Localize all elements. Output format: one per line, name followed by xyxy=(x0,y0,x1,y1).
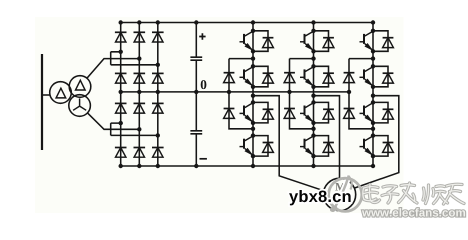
diode DW6 (clamp) xyxy=(344,109,355,119)
wire: rectifier column leg b xyxy=(138,23,140,167)
diode DU4 (freewheel) xyxy=(253,136,273,157)
diode DU5 (clamp) xyxy=(224,73,235,83)
transistor VU2 (IGBT) xyxy=(240,64,256,89)
diode DW5 (clamp) xyxy=(344,73,355,83)
transistor VW1 (IGBT) xyxy=(360,29,376,54)
wire: delta secondary to upper bridge AC input xyxy=(87,59,111,79)
label - xyxy=(200,158,207,160)
transformer T1 primary winding (delta) xyxy=(50,82,72,104)
diode DW3 (freewheel) xyxy=(373,102,393,123)
transistor VV3 (IGBT) xyxy=(300,100,316,125)
transistor VU1 (IGBT) xyxy=(240,29,256,54)
wire: DC link vertical xyxy=(195,23,197,167)
wire: upper bridge AC input comb xyxy=(111,50,160,67)
wire: positive DC bus (+) xyxy=(119,20,376,24)
wire: phase U leg xyxy=(251,23,255,167)
motor M xyxy=(323,178,355,210)
transistor VU3 (IGBT) xyxy=(240,100,256,125)
transformer T1 secondary winding 1 (delta) xyxy=(69,76,91,98)
wire: phase U output xyxy=(253,96,324,191)
diode DV4 (freewheel) xyxy=(314,136,334,157)
diode DU3 (freewheel) xyxy=(253,102,273,123)
wire: neutral bus 0 xyxy=(119,90,352,94)
diode D3 (rectifier) xyxy=(152,32,164,42)
diode DW4 (freewheel) xyxy=(373,136,393,157)
diode DW1 (freewheel) xyxy=(373,31,393,52)
wire: phase W output xyxy=(355,96,399,188)
watermark: www.elecfans.com xyxy=(362,208,465,217)
transistor VW4 (IGBT) xyxy=(360,133,376,158)
diode DU6 (clamp) xyxy=(224,109,235,119)
wire: phase V output xyxy=(314,96,340,179)
diode D11 (rectifier) xyxy=(134,148,146,158)
motor winding label M xyxy=(335,183,345,191)
wire: rectifier column leg a xyxy=(120,23,122,167)
diode DV6 (clamp) xyxy=(284,109,295,119)
wire: phase V leg xyxy=(311,23,315,167)
diode DV3 (freewheel) xyxy=(314,102,334,123)
transformer T1 secondary winding 2 (wye) xyxy=(69,95,91,117)
watermark: ybx8.cn xyxy=(289,190,351,205)
wire: phase W clamp branch xyxy=(349,59,373,129)
diode D6 (rectifier) xyxy=(152,73,164,83)
transistor VV4 (IGBT) xyxy=(300,133,316,158)
capacitor C2 xyxy=(190,131,202,134)
diode DU1 (freewheel) xyxy=(253,31,273,52)
node 0 label xyxy=(201,80,207,89)
wire: phase V clamp branch xyxy=(290,59,314,129)
transistor VV1 (IGBT) xyxy=(300,29,316,54)
wire: negative DC bus (-) xyxy=(119,164,376,168)
diode DV1 (freewheel) xyxy=(314,31,334,52)
diode D8 (rectifier) xyxy=(134,103,146,113)
watermark: elecfans logo circle xyxy=(329,176,362,214)
diode D5 (rectifier) xyxy=(134,73,146,83)
watermark: elecfans brand calligraphy xyxy=(363,183,464,204)
transistor VU4 (IGBT) xyxy=(240,133,256,158)
label + xyxy=(199,33,205,39)
diode D4 (rectifier) xyxy=(115,73,127,83)
diode D1 (rectifier) xyxy=(115,32,127,42)
wire: wye secondary to lower bridge AC input xyxy=(88,113,111,129)
wire: rectifier column leg c xyxy=(157,23,159,167)
diode DV5 (clamp) xyxy=(284,73,295,83)
diode D2 (rectifier) xyxy=(134,32,146,42)
diode DW2 (freewheel) xyxy=(373,66,393,87)
three-phase supply bus xyxy=(41,54,43,150)
diode DV2 (freewheel) xyxy=(314,66,334,87)
wire: phase W leg xyxy=(371,23,375,167)
diode D9 (rectifier) xyxy=(152,103,164,113)
capacitor C1 xyxy=(190,57,202,60)
diode D12 (rectifier) xyxy=(152,148,164,158)
diode DU2 (freewheel) xyxy=(253,66,273,87)
wire: phase U clamp branch xyxy=(229,59,253,129)
transistor VW2 (IGBT) xyxy=(360,64,376,89)
wire: supply to transformer primary xyxy=(42,94,50,96)
transistor VW3 (IGBT) xyxy=(360,100,376,125)
diode D10 (rectifier) xyxy=(115,148,127,158)
schematic background sheet xyxy=(35,17,404,213)
transistor VV2 (IGBT) xyxy=(300,64,316,89)
wire: lower bridge AC input comb xyxy=(111,121,160,138)
diode D7 (rectifier) xyxy=(115,103,127,113)
